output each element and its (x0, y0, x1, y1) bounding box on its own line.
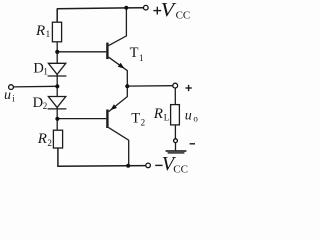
svg-text:1: 1 (46, 29, 51, 39)
svg-text:R: R (37, 131, 47, 147)
svg-text:D: D (33, 95, 43, 111)
svg-text:T: T (130, 45, 139, 61)
svg-text:R: R (35, 23, 45, 39)
svg-text:o: o (193, 113, 198, 123)
svg-text:2: 2 (141, 117, 146, 127)
svg-text:CC: CC (176, 9, 191, 21)
svg-text:1: 1 (43, 67, 48, 77)
svg-text:2: 2 (43, 101, 48, 111)
svg-text:L: L (164, 113, 170, 123)
svg-text:u: u (4, 88, 11, 103)
svg-text:1: 1 (139, 53, 144, 63)
svg-text:D: D (33, 61, 43, 77)
svg-text:CC: CC (173, 163, 188, 175)
svg-text:R: R (153, 106, 163, 122)
svg-text:2: 2 (47, 138, 52, 148)
svg-text:T: T (131, 110, 140, 126)
svg-text:u: u (185, 108, 192, 123)
